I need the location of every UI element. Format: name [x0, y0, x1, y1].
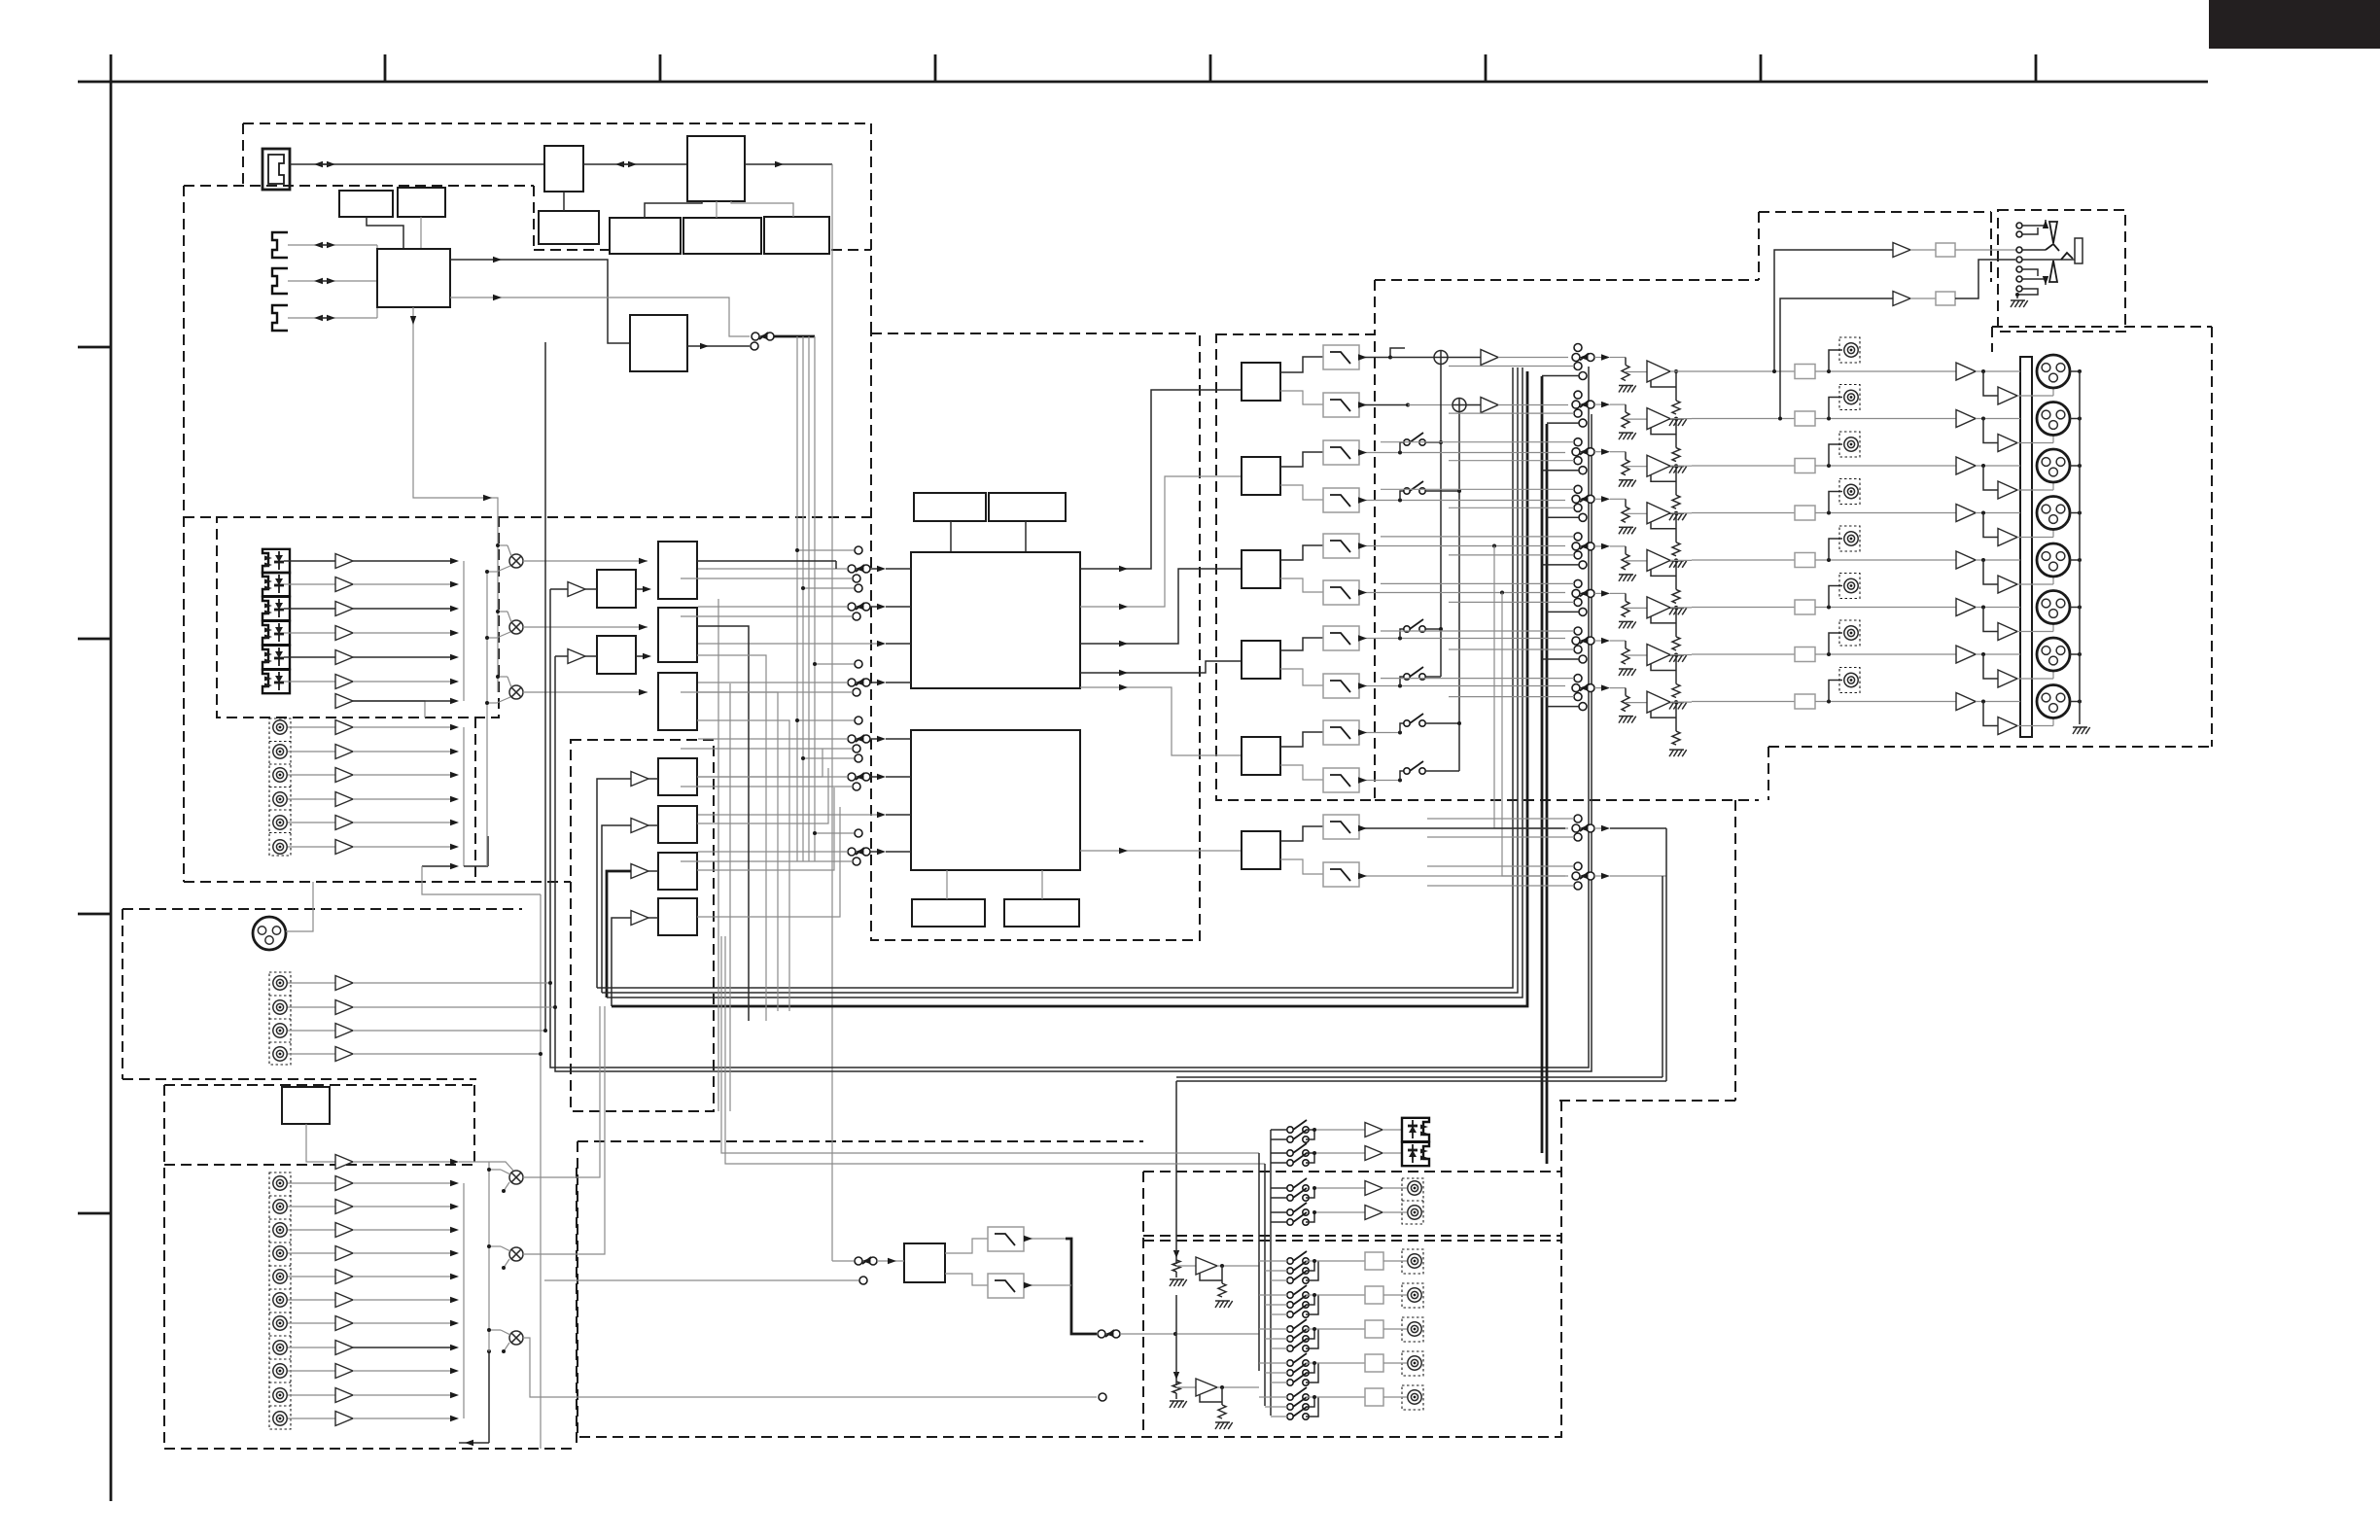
- line input jack 11: [273, 1412, 287, 1425]
- analog routing wire down: [422, 865, 453, 867]
- dashed box: headphone jack: [1998, 210, 2125, 332]
- dashed boundary: output section bottom: [1375, 799, 1759, 801]
- pre-out RCA jack 7: [1829, 633, 1842, 654]
- zone2 DAC box: [904, 1243, 945, 1282]
- left border tick marks: [78, 346, 111, 349]
- analog bus line 4 thick: [612, 371, 1527, 1006]
- output row 5 line: [1692, 559, 1795, 561]
- optical input row 2 wire: [284, 583, 335, 585]
- DAC 2 output stubs: [1280, 452, 1323, 467]
- XLR output connector 1: [2037, 355, 2070, 388]
- aux circles row y=561.9: [1574, 533, 1582, 541]
- optical input connector 5: [262, 646, 290, 669]
- phono output route: [306, 1124, 335, 1162]
- wire to multiplier feed: [492, 498, 498, 692]
- dashed box: optical digital inputs: [217, 517, 499, 717]
- mixer 2 stubs: [489, 1245, 501, 1247]
- ADC box 3: [658, 853, 697, 890]
- digital out switch 2a: [1287, 1150, 1293, 1156]
- DSP1 outputs to DACs: [1080, 390, 1216, 569]
- output row 3 line: [1692, 465, 1795, 467]
- buffer amp optical row 2: [335, 577, 353, 592]
- line input jack 4: [273, 1246, 287, 1260]
- DSP input row y=585: [848, 565, 856, 573]
- XLR drive buffer 7: [1956, 646, 1976, 663]
- headphone jack contacts: [2016, 223, 2022, 228]
- DAC 3 output stubs: [1280, 545, 1323, 560]
- ADC buffer 3: [631, 864, 648, 879]
- filter output row 7: [1359, 638, 1390, 640]
- buffer amp optical row 3: [335, 602, 353, 616]
- output row 6 line: [1692, 607, 1795, 609]
- dashed box: DSP section: [871, 333, 1200, 940]
- feedback and load row y=707.6: [1651, 711, 1676, 717]
- line input jack 5: [273, 1270, 287, 1283]
- optical TX 2: [1402, 1142, 1429, 1166]
- DAC 4: [1242, 641, 1280, 679]
- dashed box: headphone amp area: [1758, 212, 1760, 280]
- volume divider row y=610.4: [1625, 593, 1627, 601]
- dashed box: zone line out: [1143, 1171, 1561, 1172]
- LAN controller box: [544, 146, 583, 192]
- HDMI switch out 2: [450, 297, 750, 336]
- thick record bus: [774, 335, 815, 338]
- codec box 1: [597, 570, 636, 608]
- LPF filter 11: [1323, 815, 1359, 839]
- DSP chip 2: [911, 730, 1080, 870]
- sum node front L: [1434, 351, 1448, 365]
- dashed box: line inputs area bottom-left: [163, 1168, 165, 1449]
- ground row y=659.0: [1619, 669, 1624, 676]
- DSP input row y=624: [848, 603, 856, 611]
- volume divider row y=367.5: [1625, 358, 1627, 366]
- left page border vertical: [110, 54, 113, 1501]
- SRC box column 2: [658, 608, 697, 662]
- DSP2 output to zone DAC: [1080, 850, 1216, 852]
- line input jack 8: [273, 1341, 287, 1354]
- feedback and load row y=561.9: [1651, 569, 1676, 576]
- ADC box 4: [658, 898, 697, 935]
- buffer amp optical row 6: [335, 675, 353, 689]
- multiplier 1 stubs: [498, 544, 507, 546]
- inverting buffer 1: [1983, 371, 1998, 396]
- zone pre out jack 4: [1408, 1356, 1421, 1370]
- HDMI switch out 1 (audio): [450, 260, 630, 343]
- main-in row 4: [288, 1053, 335, 1055]
- LPF filter 1: [1323, 345, 1359, 369]
- collector vertical for digital rows: [463, 561, 465, 701]
- DIR box: [630, 315, 687, 371]
- line input buffer 4: [335, 1246, 353, 1261]
- zone pre out switch 4a: [1287, 1360, 1293, 1366]
- selector row y=707.6: [1572, 684, 1580, 692]
- inverting buffer 3: [1983, 466, 1998, 490]
- line input row 8: [288, 1347, 335, 1348]
- black header block top-right: [2209, 0, 2380, 49]
- zone pre out switch 4c: [1287, 1380, 1293, 1385]
- optical input connector 4: [262, 621, 290, 645]
- inverting buffer 5: [1983, 560, 1998, 584]
- wires HDMI jacks to switch: [288, 244, 377, 246]
- volume divider row y=659.0: [1625, 641, 1627, 648]
- SRC box column 3: [658, 673, 697, 730]
- output relay box 7: [1795, 647, 1815, 662]
- buffer amp analog row 5: [335, 816, 353, 830]
- aux circles row y=513.3: [1574, 485, 1582, 493]
- line input jack 2: [273, 1200, 287, 1213]
- output row 8 line: [1692, 701, 1795, 703]
- zone pre out switch 2a: [1287, 1292, 1293, 1298]
- zone line out jack 2: [1408, 1206, 1421, 1219]
- headphone mute L: [1936, 243, 1955, 257]
- XLR output connector 3: [2037, 449, 2070, 482]
- pre-out RCA jack 3: [1829, 444, 1842, 466]
- main-in buffer 4: [335, 1047, 353, 1062]
- wires small boxes to switch: [367, 217, 403, 249]
- headphone amp R: [1893, 292, 1910, 306]
- output row 1 line: [1692, 370, 1795, 372]
- output buffer amp y=673.5: [1647, 645, 1670, 666]
- rec out mixer 3: [509, 1331, 523, 1345]
- ADC box 2: [658, 806, 697, 843]
- RCA analog input jack 3: [273, 768, 287, 782]
- line input buffer 3: [335, 1223, 353, 1238]
- zone pre out mute 5: [1365, 1388, 1383, 1406]
- pre-out RCA jack 8: [1829, 681, 1842, 702]
- ground row y=464.7: [1619, 480, 1624, 487]
- zone direct vertical to bottom bus: [1665, 828, 1667, 1081]
- zone line driver y=1300: [1196, 1257, 1217, 1275]
- feedback and load row y=367.5: [1651, 380, 1676, 387]
- zone pre out mute 1: [1365, 1252, 1383, 1270]
- zone opamp cluster y=1300: [1175, 1252, 1177, 1264]
- ground row y=416.1: [1619, 433, 1624, 439]
- output buffer amp y=624.9: [1647, 597, 1670, 618]
- dotted jack strip main-in: [269, 972, 291, 1065]
- HDMI switch down arrow to audio path: [413, 307, 492, 498]
- small boxes above HDMI switch: [339, 191, 393, 217]
- headphone mute R: [1936, 292, 1955, 305]
- output row 2 line: [1692, 418, 1795, 420]
- page border tick marks top: [384, 54, 387, 82]
- line input jack 3: [273, 1223, 287, 1237]
- XLR output connector 8: [2037, 685, 2070, 718]
- LPF filter 12: [1323, 862, 1359, 887]
- DAC 6: [1242, 831, 1280, 869]
- main-in RCA jack 2: [273, 1000, 287, 1014]
- line input row 7: [288, 1322, 335, 1324]
- aux circles row y=610.4: [1574, 579, 1582, 587]
- pre-out RCA jack 5: [1829, 539, 1842, 560]
- zone pre out switch 1b: [1287, 1268, 1293, 1274]
- output buffer amp y=576.4: [1647, 549, 1670, 571]
- buffer amp analog row 4: [335, 792, 353, 807]
- DAC 2: [1242, 457, 1280, 495]
- output buffer amp y=479.2: [1647, 455, 1670, 476]
- downmix switch row 9: [1404, 720, 1410, 726]
- inverting buffer 7: [1983, 654, 1998, 679]
- main-in RCA jack 1: [273, 976, 287, 990]
- zone pre out switch 2b: [1287, 1302, 1293, 1308]
- DAC 6 output stubs: [1280, 826, 1323, 841]
- zone line out buffer 1: [1365, 1181, 1382, 1196]
- aux circles row y=367.5: [1574, 344, 1582, 352]
- bottom corner route: [459, 1442, 489, 1444]
- main-in RCA jack 4: [273, 1047, 287, 1061]
- RCA analog input jack 6: [273, 840, 287, 854]
- dashed box: HDMI control/CPU area (top): [243, 122, 871, 124]
- XLR output connector 5: [2037, 543, 2070, 577]
- zone direct route y=901: [1610, 875, 1666, 877]
- volume divider row y=416.1: [1625, 404, 1627, 412]
- zone feed verticals: [1541, 376, 1544, 1153]
- analog bus line 1: [597, 367, 1513, 988]
- inverting buffer 8: [1983, 702, 1998, 726]
- codec box 2: [597, 636, 636, 674]
- XLR mounting busbar: [2020, 357, 2032, 737]
- optical input row 3 wire: [284, 608, 335, 610]
- analog input row 2 wire: [288, 751, 335, 752]
- DSP1 config ROM boxes: [914, 493, 986, 521]
- line input buffer 8: [335, 1341, 353, 1355]
- multiplier mixer 1: [509, 554, 523, 568]
- XLR output connector 2: [2037, 402, 2070, 436]
- output relay box 6: [1795, 600, 1815, 614]
- output relay box 3: [1795, 459, 1815, 473]
- zone2 input selector: [832, 1260, 854, 1262]
- line input buffer 1: [335, 1176, 353, 1191]
- zone2 filter outputs: [1024, 1238, 1066, 1240]
- headphone feed taps: [1774, 250, 1893, 371]
- LPF filter 5: [1323, 534, 1359, 558]
- line input buffer 10: [335, 1388, 353, 1403]
- output buffer amp y=382: [1647, 361, 1670, 382]
- filter output row 3: [1359, 452, 1390, 454]
- multiplier feed vertical: [486, 572, 488, 866]
- selector row y=659.0: [1572, 637, 1580, 645]
- XLR output connector 4: [2037, 497, 2070, 530]
- RCA analog input jack 4: [273, 792, 287, 806]
- sum feed vertical L: [1440, 365, 1442, 678]
- HDMI input connector 1: [272, 232, 288, 258]
- LPF filter 2: [1323, 393, 1359, 417]
- rec select feed vertical bottom: [488, 1162, 490, 1351]
- feedback and load row y=513.3: [1651, 522, 1676, 529]
- XLR drive buffer 4: [1956, 505, 1976, 522]
- inverting buffer 6: [1983, 608, 1998, 632]
- dashed boundary: lower-right region: [1734, 800, 1736, 1101]
- output relay box 4: [1795, 506, 1815, 520]
- sub boxes under CPU: [610, 218, 681, 254]
- multiplier 2 stubs: [498, 611, 507, 612]
- downmix switch row 4: [1404, 488, 1410, 494]
- optical input connector 2: [262, 573, 290, 596]
- SRC box column 1: [658, 542, 697, 599]
- output buffer amp y=430.6: [1647, 408, 1670, 430]
- ground headphone jack: [2011, 300, 2015, 307]
- sum feed vertical R: [1458, 412, 1460, 772]
- selector row y=513.3: [1572, 495, 1580, 503]
- XLR output connector 7: [2037, 638, 2070, 671]
- LPF filter 8: [1323, 674, 1359, 698]
- line input row 5: [288, 1276, 335, 1277]
- filter output row 6: [1359, 592, 1390, 594]
- main-in row 1: [288, 982, 335, 984]
- multiplier outputs to SRC boxes: [523, 560, 647, 562]
- line input row 1: [288, 1182, 335, 1184]
- line input jack 6: [273, 1293, 287, 1307]
- zone pre out switch 3a: [1287, 1326, 1293, 1332]
- ADC buffer 4: [631, 911, 648, 926]
- ADC feed verticals from bus: [597, 779, 631, 988]
- zone line out buffer 2: [1365, 1206, 1382, 1220]
- analog bus line 2: [602, 367, 1518, 993]
- DSP input row y=799: [848, 773, 856, 781]
- downmix switch row 10: [1404, 768, 1410, 774]
- ADC box 1: [658, 758, 697, 795]
- output relay box 5: [1795, 553, 1815, 568]
- analog input row 3 wire: [288, 774, 335, 776]
- pre-out RCA jack 4: [1829, 492, 1842, 513]
- downmix switch row 8: [1404, 674, 1410, 680]
- multiplier mixer 3: [509, 685, 523, 699]
- LPF filter 4: [1323, 488, 1359, 512]
- XLR mic input connector: [253, 917, 286, 950]
- zone2 out selector: [1098, 1330, 1105, 1338]
- output relay box 1: [1795, 365, 1815, 379]
- ADC box outputs: [697, 749, 822, 777]
- selector row y=367.5: [1572, 354, 1580, 362]
- interconnect verticals wiring area: [717, 599, 719, 1111]
- volume divider row y=561.9: [1625, 546, 1627, 554]
- XLR drive buffer 2: [1956, 410, 1976, 428]
- LPF filter 7: [1323, 626, 1359, 650]
- headphone jack tip contact arm: [2022, 220, 2046, 226]
- pre-out RCA jack 6: [1829, 586, 1842, 608]
- digital out switch 1b: [1287, 1137, 1293, 1142]
- buffer amp analog row 2: [335, 745, 353, 759]
- zone opamp feed vertical: [1175, 1081, 1177, 1252]
- buffer after sum R: [1481, 398, 1498, 413]
- downmix switch row 3: [1404, 439, 1410, 445]
- matrix feed verticals: [1258, 1153, 1260, 1371]
- line input row 3: [288, 1229, 335, 1231]
- line input buffer 7: [335, 1316, 353, 1331]
- DIR output: [687, 345, 750, 347]
- filter output row 5: [1359, 545, 1390, 547]
- selector row y=610.4: [1572, 589, 1580, 597]
- ground row y=707.6: [1619, 717, 1624, 723]
- main-in buffer 1: [335, 976, 353, 991]
- DSP2 ROM boxes: [912, 899, 985, 927]
- headphone jack lower contact arm: [2022, 269, 2038, 276]
- inverting buffer 2: [1983, 419, 1998, 443]
- zone pre out mute 2: [1365, 1286, 1383, 1304]
- buffer into codec box 2: [568, 649, 585, 664]
- line input buffer 5: [335, 1270, 353, 1284]
- analog collector vertical: [463, 727, 465, 866]
- line input jack 10: [273, 1388, 287, 1402]
- line input buffer 6: [335, 1293, 353, 1308]
- filter output row 1 (FL): [1359, 357, 1390, 359]
- line input collector verticals: [463, 1183, 465, 1418]
- multiplier mixer 2: [509, 620, 523, 634]
- dotted jack strip analog inputs: [269, 718, 291, 856]
- RCA analog input jack 1: [273, 720, 287, 734]
- headphone jack sleeve/plug: [2075, 238, 2082, 263]
- main-in buffer 2: [335, 1000, 353, 1015]
- headphone amp L: [1893, 243, 1910, 258]
- pre-out RCA jack 2: [1829, 398, 1842, 419]
- digital record bus verticals: [796, 336, 798, 861]
- box below LAN: [539, 211, 599, 244]
- filter output row 10: [1359, 780, 1390, 782]
- zone line out switch 1a: [1287, 1185, 1293, 1191]
- coax row 7 wire: [335, 701, 425, 717]
- digital out buffer 2: [1365, 1146, 1382, 1161]
- buffer amp optical row 5: [335, 650, 353, 665]
- phono buffer: [335, 1155, 353, 1170]
- line input row 9: [288, 1370, 335, 1372]
- feedback and load row y=659.0: [1651, 664, 1676, 671]
- volume divider row y=707.6: [1625, 688, 1627, 696]
- RCA analog input jack 5: [273, 816, 287, 829]
- record source selector: [752, 332, 759, 340]
- optical input row 5 wire: [284, 656, 335, 658]
- ADC buffer 2: [631, 819, 648, 833]
- zone branch verticals from rows 5,6: [1492, 544, 1496, 548]
- main-in buffer 3: [335, 1024, 353, 1038]
- zone line out switch 1b: [1287, 1195, 1293, 1201]
- DAC 3: [1242, 550, 1280, 588]
- headphone jack ground contact: [2017, 289, 2038, 298]
- line input jack 7: [273, 1316, 287, 1330]
- wire LAN down: [563, 192, 565, 211]
- analog input row 5 wire: [288, 822, 335, 823]
- wires CPU to sub boxes: [645, 201, 702, 218]
- wire LAN to CPU: [583, 163, 687, 165]
- zone direct filter row y=901: [1359, 875, 1565, 877]
- line input buffer 2: [335, 1200, 353, 1214]
- DAC feed lines inside dashed DAC box: [1216, 389, 1242, 391]
- optical input row 1 wire: [284, 560, 335, 562]
- wire down right side from CPU: [831, 164, 833, 1261]
- line input row 11: [288, 1417, 335, 1419]
- wire CPU to right: [745, 163, 832, 165]
- zone2 filter 1: [945, 1239, 988, 1253]
- filter output row 8: [1359, 685, 1390, 687]
- zone direct route y=852: [1610, 827, 1666, 829]
- zone pre out jack 3: [1408, 1322, 1421, 1336]
- HDMI switch box: [377, 249, 450, 307]
- rec out mixer 2: [509, 1247, 523, 1261]
- XLR drive buffer 3: [1956, 457, 1976, 474]
- DAC 4 output stubs: [1280, 638, 1323, 650]
- ground row y=561.9: [1619, 575, 1624, 581]
- zone line out switch 2a: [1287, 1209, 1293, 1215]
- main CPU box: [687, 136, 745, 201]
- dashed box: zone2 area: [577, 1140, 1143, 1142]
- output row 4 line: [1692, 512, 1795, 514]
- mixer 3 stubs: [489, 1329, 501, 1331]
- line input row 10: [288, 1394, 335, 1396]
- optical input connector 3: [262, 597, 290, 620]
- LPF filter 3: [1323, 440, 1359, 465]
- optical input row 4 wire: [284, 632, 335, 634]
- DSP input row y=876: [848, 848, 856, 856]
- zone pre out switch 4b: [1287, 1370, 1293, 1376]
- main-in row 3: [288, 1030, 335, 1032]
